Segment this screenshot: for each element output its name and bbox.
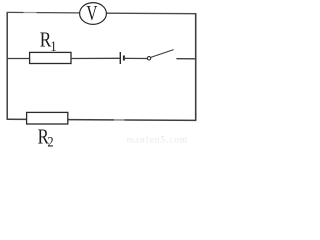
watermark glare on top wire bbox=[24, 11, 37, 15]
wire: battery to switch bbox=[125, 57, 147, 59]
switch pivot circle bbox=[147, 57, 150, 60]
svg-text:1: 1 bbox=[50, 39, 56, 55]
resistor R1 bbox=[30, 52, 71, 63]
voltmeter V bbox=[80, 1, 107, 25]
wire: switch right contact bbox=[176, 58, 196, 60]
svg-text:2: 2 bbox=[47, 135, 53, 148]
battery cell: short plate bbox=[123, 56, 125, 61]
wire: R1 to battery bbox=[71, 57, 120, 59]
svg-text:manfen5.com: manfen5.com bbox=[127, 135, 188, 145]
wire: top, left of voltmeter bbox=[7, 11, 80, 14]
switch blade bbox=[151, 50, 174, 58]
wire: left side vertical bbox=[6, 12, 8, 119]
wire: bottom, right of R2 bbox=[68, 119, 197, 122]
watermark glare on bottom wire bbox=[114, 118, 125, 122]
wire: right side vertical bbox=[195, 13, 197, 120]
wire: top, right of voltmeter bbox=[106, 12, 196, 15]
wire: middle branch, left to R1 bbox=[7, 58, 30, 60]
battery cell: long plate bbox=[119, 52, 121, 64]
resistor R2 bbox=[27, 112, 68, 124]
wire: bottom, left of R2 bbox=[7, 118, 28, 120]
svg-text:V: V bbox=[86, 1, 97, 25]
